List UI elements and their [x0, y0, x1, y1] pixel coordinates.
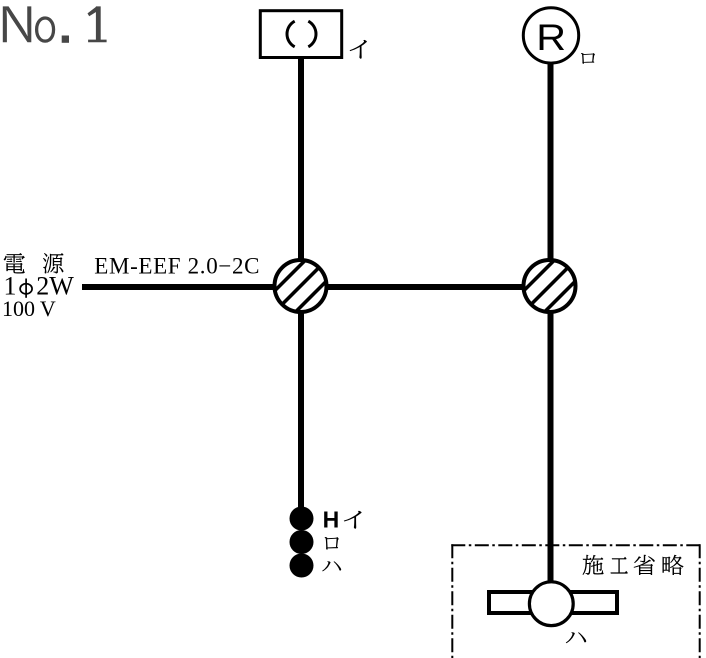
svg-text:V: V: [40, 296, 56, 321]
svg-text:100: 100: [2, 296, 35, 321]
svg-text:H: H: [323, 506, 340, 532]
svg-text:R: R: [536, 17, 566, 59]
svg-text:EM-EEF 2.0−2C: EM-EEF 2.0−2C: [94, 254, 260, 279]
